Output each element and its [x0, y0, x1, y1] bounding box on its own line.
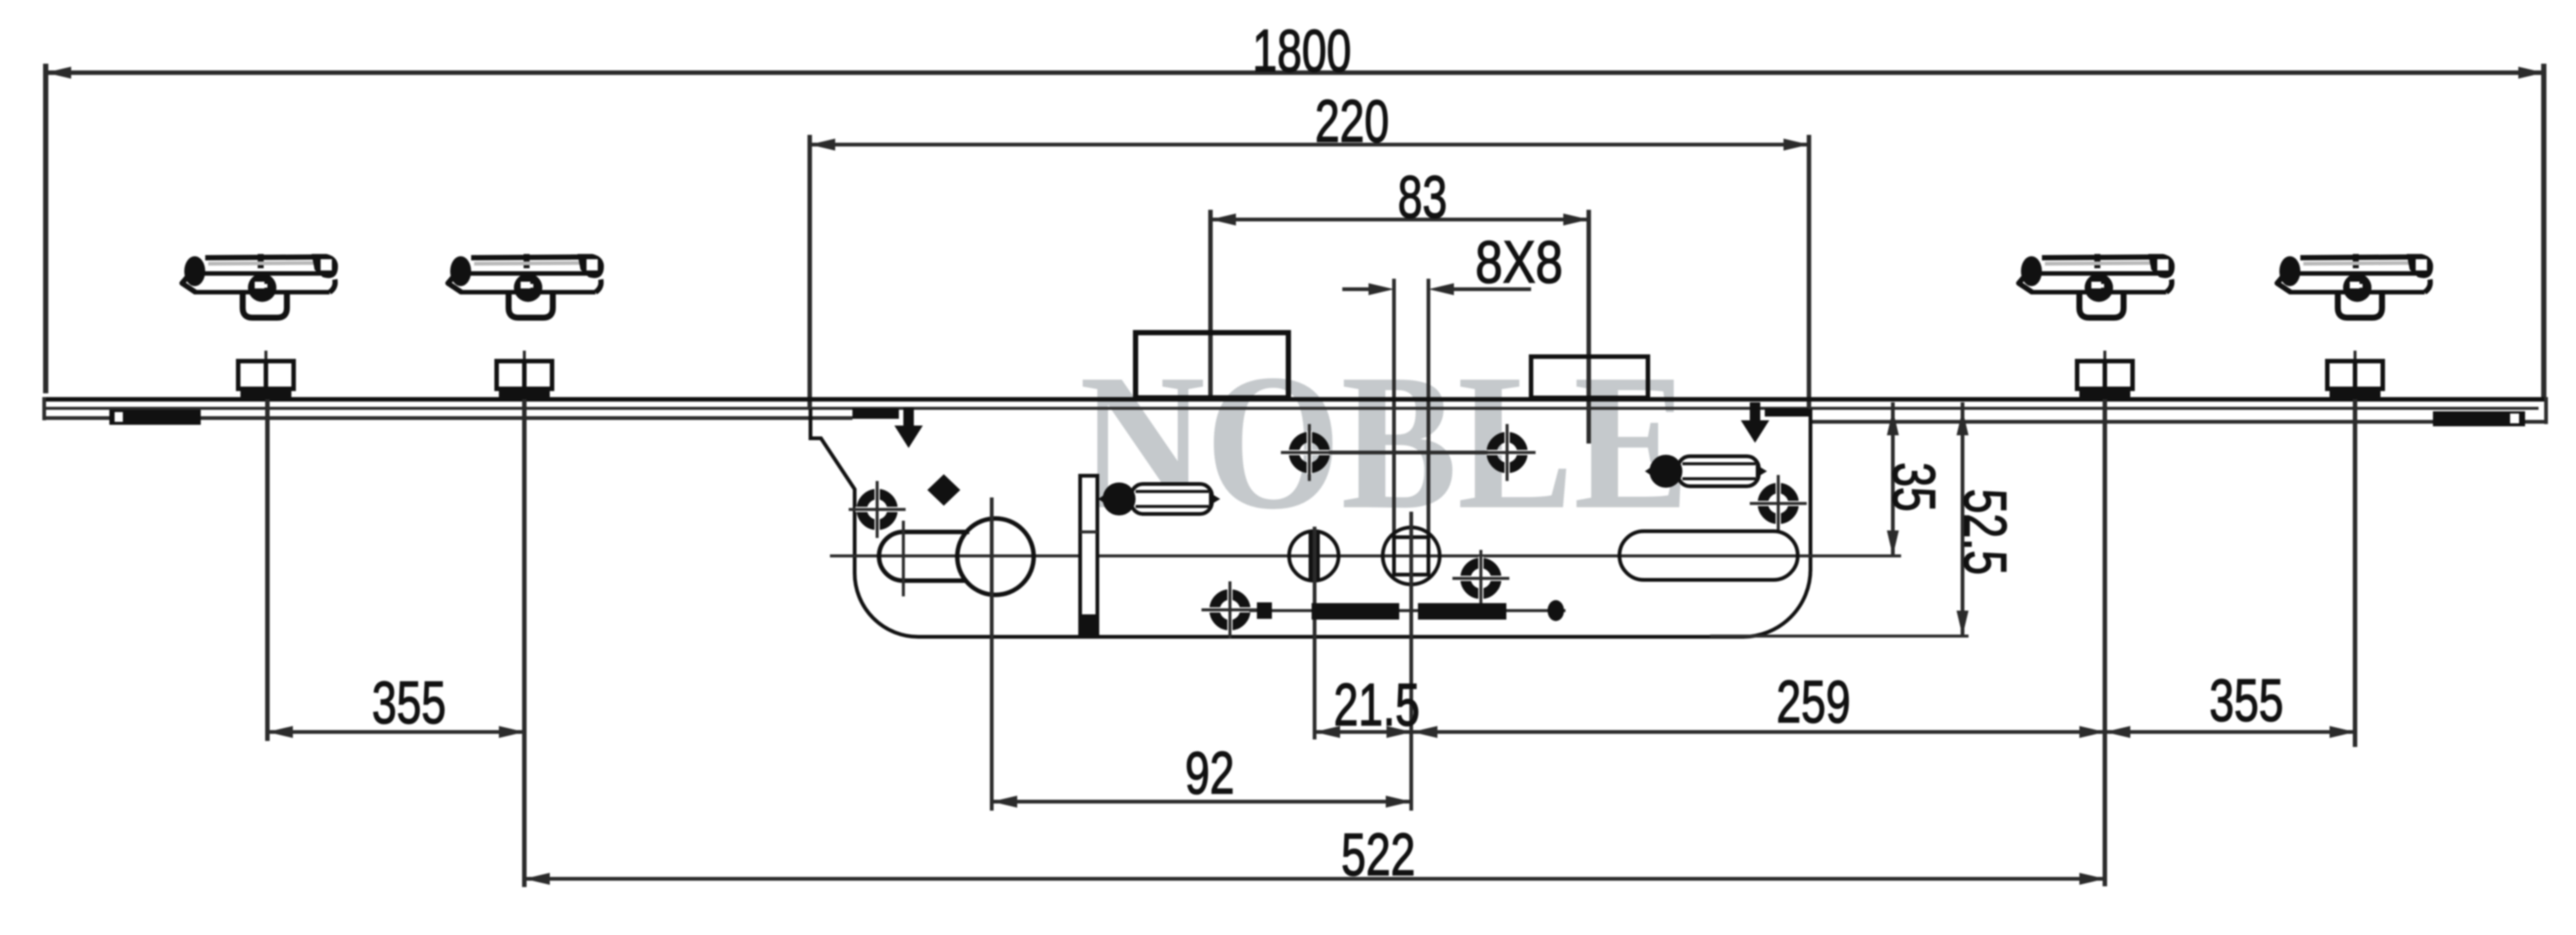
dimension 355 right line [2105, 730, 2355, 734]
block on faceplate left (gearbox cover) [1136, 333, 1288, 398]
screw E [1452, 550, 1509, 607]
svg-text:35: 35 [1881, 462, 1948, 512]
svg-text:52.5: 52.5 [1952, 489, 2019, 575]
cylinder small-arc center tick [902, 521, 905, 596]
lock body outline [810, 409, 1810, 637]
keep strike plate 2 [448, 254, 604, 318]
diamond marker [927, 474, 960, 506]
svg-text:522: 522 [1342, 821, 1416, 888]
roller cam 4 [2327, 351, 2383, 399]
dimension 1800 extension line right [2542, 64, 2547, 398]
roller 1 centerline / extension [265, 399, 270, 741]
faceplate bottom line right part [1809, 420, 2548, 424]
thick bar left [1312, 603, 1399, 620]
faceplate left end cap [43, 397, 46, 420]
screw C (pair right) [1479, 424, 1536, 481]
faceplate dark bar at lock right [1765, 408, 1809, 417]
keep strike plate 3 [2019, 254, 2175, 318]
screw D with dark bar (cylinder fixing hole) [1289, 531, 1339, 581]
rod end square left [1257, 602, 1272, 619]
dimension 522 line [524, 877, 2105, 881]
spindle square 8x8 [1383, 527, 1440, 584]
dimension 220 line [810, 143, 1809, 147]
svg-text:21.5: 21.5 [1334, 671, 1420, 738]
faceplate top line [43, 397, 2548, 402]
spindle centerline / extension [1410, 512, 1413, 811]
roller cam 2 [497, 351, 552, 399]
oval slot [1619, 531, 1798, 580]
dimension 35 line [1891, 402, 1895, 556]
dimension 52.5 line [1961, 402, 1965, 636]
dimension 8X8 line right segment [1449, 288, 1531, 291]
down arrow marker left [894, 408, 923, 448]
dimension 21.5 line [1315, 730, 1412, 734]
keep strike plate 4 [2277, 254, 2433, 318]
dimension 92 line [992, 800, 1411, 804]
connecting rod line [1249, 609, 1566, 612]
line between screw pair [1329, 451, 1488, 455]
dimension 8X8 line left segment [1342, 288, 1372, 291]
screw F [1750, 475, 1807, 532]
dimension 355 left line [267, 730, 524, 734]
thin vertical plate [1080, 476, 1097, 633]
keep strike plate 1 [182, 254, 338, 318]
latch bolt 1 [1098, 482, 1220, 515]
dimension 220 extension line left [807, 135, 812, 409]
roller cam 3 [2077, 351, 2133, 399]
svg-text:220: 220 [1315, 88, 1389, 154]
faceplate bottom line left part [43, 417, 852, 420]
dimension 220 extension line right [1807, 135, 1811, 409]
svg-text:355: 355 [2210, 667, 2284, 733]
faceplate dark bar far right [2433, 411, 2525, 426]
21.5 extension line [1313, 527, 1317, 739]
screw G [1201, 581, 1258, 638]
euro cylinder cutout [957, 518, 1034, 595]
down arrow marker right [1741, 402, 1769, 443]
dimension 35 landing line (centerline ext) [1813, 554, 1901, 557]
dimension 355 left extension [267, 399, 268, 741]
faceplate middle line [46, 407, 2539, 410]
roller 3 centerline / extension [2103, 399, 2107, 886]
screw B (pair left) [1281, 424, 1338, 481]
roller cam 1 [238, 351, 294, 399]
roller 4 centerline / extension [2353, 399, 2357, 747]
svg-text:1800: 1800 [1252, 17, 1351, 84]
cylinder centerline / 92 extension [990, 497, 994, 811]
thick bar right [1418, 603, 1506, 620]
lock centerline [830, 554, 1901, 557]
dimension 1800 extension line left [43, 64, 49, 393]
screw A (lock top-left) [849, 481, 906, 538]
svg-text:355: 355 [372, 669, 446, 736]
dimension 83 line [1210, 218, 1589, 222]
faceplate right end cap [2545, 397, 2548, 424]
block on faceplate right [1531, 357, 1648, 398]
dimension 52.5 landing line (lock bottom ext) [1710, 635, 1969, 638]
faceplate dark bar far left [109, 410, 201, 425]
dimension 259 line [1412, 730, 2105, 734]
dimension 83 extension line right [1586, 210, 1591, 444]
dimension 1800 line [46, 70, 2544, 75]
faceplate dark bar at lock left [852, 408, 899, 419]
latch bolt 2 [1645, 455, 1767, 488]
svg-text:NOBLE: NOBLE [1079, 334, 1690, 550]
svg-text:83: 83 [1398, 163, 1447, 230]
dimension 83 extension line left [1208, 210, 1213, 399]
svg-text:92: 92 [1185, 739, 1234, 806]
roller 2 centerline / extension [522, 399, 527, 887]
svg-text:259: 259 [1777, 668, 1851, 735]
dimension 8X8 extension line left [1392, 279, 1396, 539]
dimension 8X8 extension line right [1427, 279, 1431, 539]
svg-text:8X8: 8X8 [1476, 229, 1563, 295]
rod end square right [1548, 600, 1564, 621]
